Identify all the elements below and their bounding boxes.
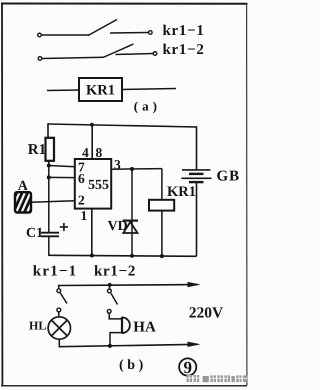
svg-text:4: 4: [82, 145, 89, 160]
svg-text:2: 2: [78, 193, 85, 208]
svg-text:HA: HA: [133, 320, 156, 336]
node pin6 junction: [47, 175, 51, 179]
wire R1 down to C1: [48, 161, 50, 233]
svg-text:GB: GB: [217, 168, 240, 184]
switch contact kr1-1 (part a): [38, 20, 152, 37]
wire C1 to bottom rail: [48, 236, 50, 256]
svg-text:6: 6: [78, 171, 85, 186]
figure number 9: [179, 358, 196, 377]
wire to pin 7: [49, 166, 75, 167]
wire buzzer to line N: [110, 333, 122, 347]
wire top supply rail: [48, 124, 197, 127]
svg-text:(a): (a): [134, 99, 161, 114]
capacitor C1: [41, 233, 59, 237]
svg-text:555: 555: [88, 178, 109, 193]
node coil/rail: [160, 254, 164, 258]
label C1 plus: [60, 223, 68, 231]
svg-text:kr1−2: kr1−2: [163, 42, 205, 58]
node pin1/rail: [90, 254, 94, 258]
timer IC U1 555: [75, 159, 111, 209]
relay coil KR1: [149, 169, 174, 257]
wire to pin 6: [49, 176, 75, 178]
wire bottom rail: [49, 254, 197, 257]
svg-text:R1: R1: [28, 142, 46, 158]
wire rail to R1: [47, 123, 49, 138]
wire switch to buzzer: [109, 313, 122, 319]
svg-text:220V: 220V: [189, 305, 224, 322]
svg-text:(b): (b): [119, 358, 147, 373]
svg-text:HL: HL: [29, 319, 46, 333]
wire to relay KR1 left: [47, 89, 79, 92]
node VD/rail: [130, 254, 134, 258]
lamp HL: [48, 317, 70, 339]
wire VD branch: [131, 169, 133, 256]
svg-text:1: 1: [81, 208, 88, 223]
diode VD: [123, 221, 138, 233]
touch plate A: [15, 192, 31, 212]
node pin3/VD junction: [130, 167, 134, 171]
wire 220V line N: [59, 344, 198, 346]
switch contact kr1-2 (part a): [38, 44, 157, 60]
wire 220V line L: [58, 284, 198, 287]
svg-text:KR1: KR1: [86, 83, 115, 99]
resistor R1: [28, 138, 54, 161]
switch kr1-2 (part b): [107, 285, 117, 313]
node R1/pin7 junction: [47, 164, 51, 168]
buzzer HA: [122, 317, 130, 334]
wire A to pin 2: [31, 201, 75, 203]
wire lamp to line N: [58, 339, 60, 347]
switch kr1-1 (part b): [57, 286, 67, 318]
svg-text:KR1: KR1: [167, 184, 196, 200]
relay KR1 (part a): [79, 78, 122, 101]
node kr1-2 tap: [108, 283, 112, 287]
svg-text:kr1−2: kr1−2: [94, 264, 136, 280]
battery GB: [182, 126, 212, 256]
arrow line N: [188, 342, 201, 347]
arrow line L: [188, 282, 201, 287]
wire pins 4,8 to rail: [91, 125, 93, 159]
svg-text:C1: C1: [26, 226, 43, 241]
wire from relay KR1 right: [122, 89, 176, 90]
svg-text:3: 3: [114, 157, 121, 172]
wire pin 1 to bottom rail: [91, 209, 93, 256]
svg-text:kr1−1: kr1−1: [33, 264, 78, 280]
node pin4/8 junction: [90, 123, 94, 127]
wire pin 3 output: [111, 168, 162, 171]
svg-text:9: 9: [184, 358, 193, 377]
svg-text:kr1−1: kr1−1: [163, 23, 205, 39]
node buzzer tap: [108, 344, 112, 348]
watermark: [187, 375, 248, 382]
svg-text:8: 8: [96, 145, 103, 160]
